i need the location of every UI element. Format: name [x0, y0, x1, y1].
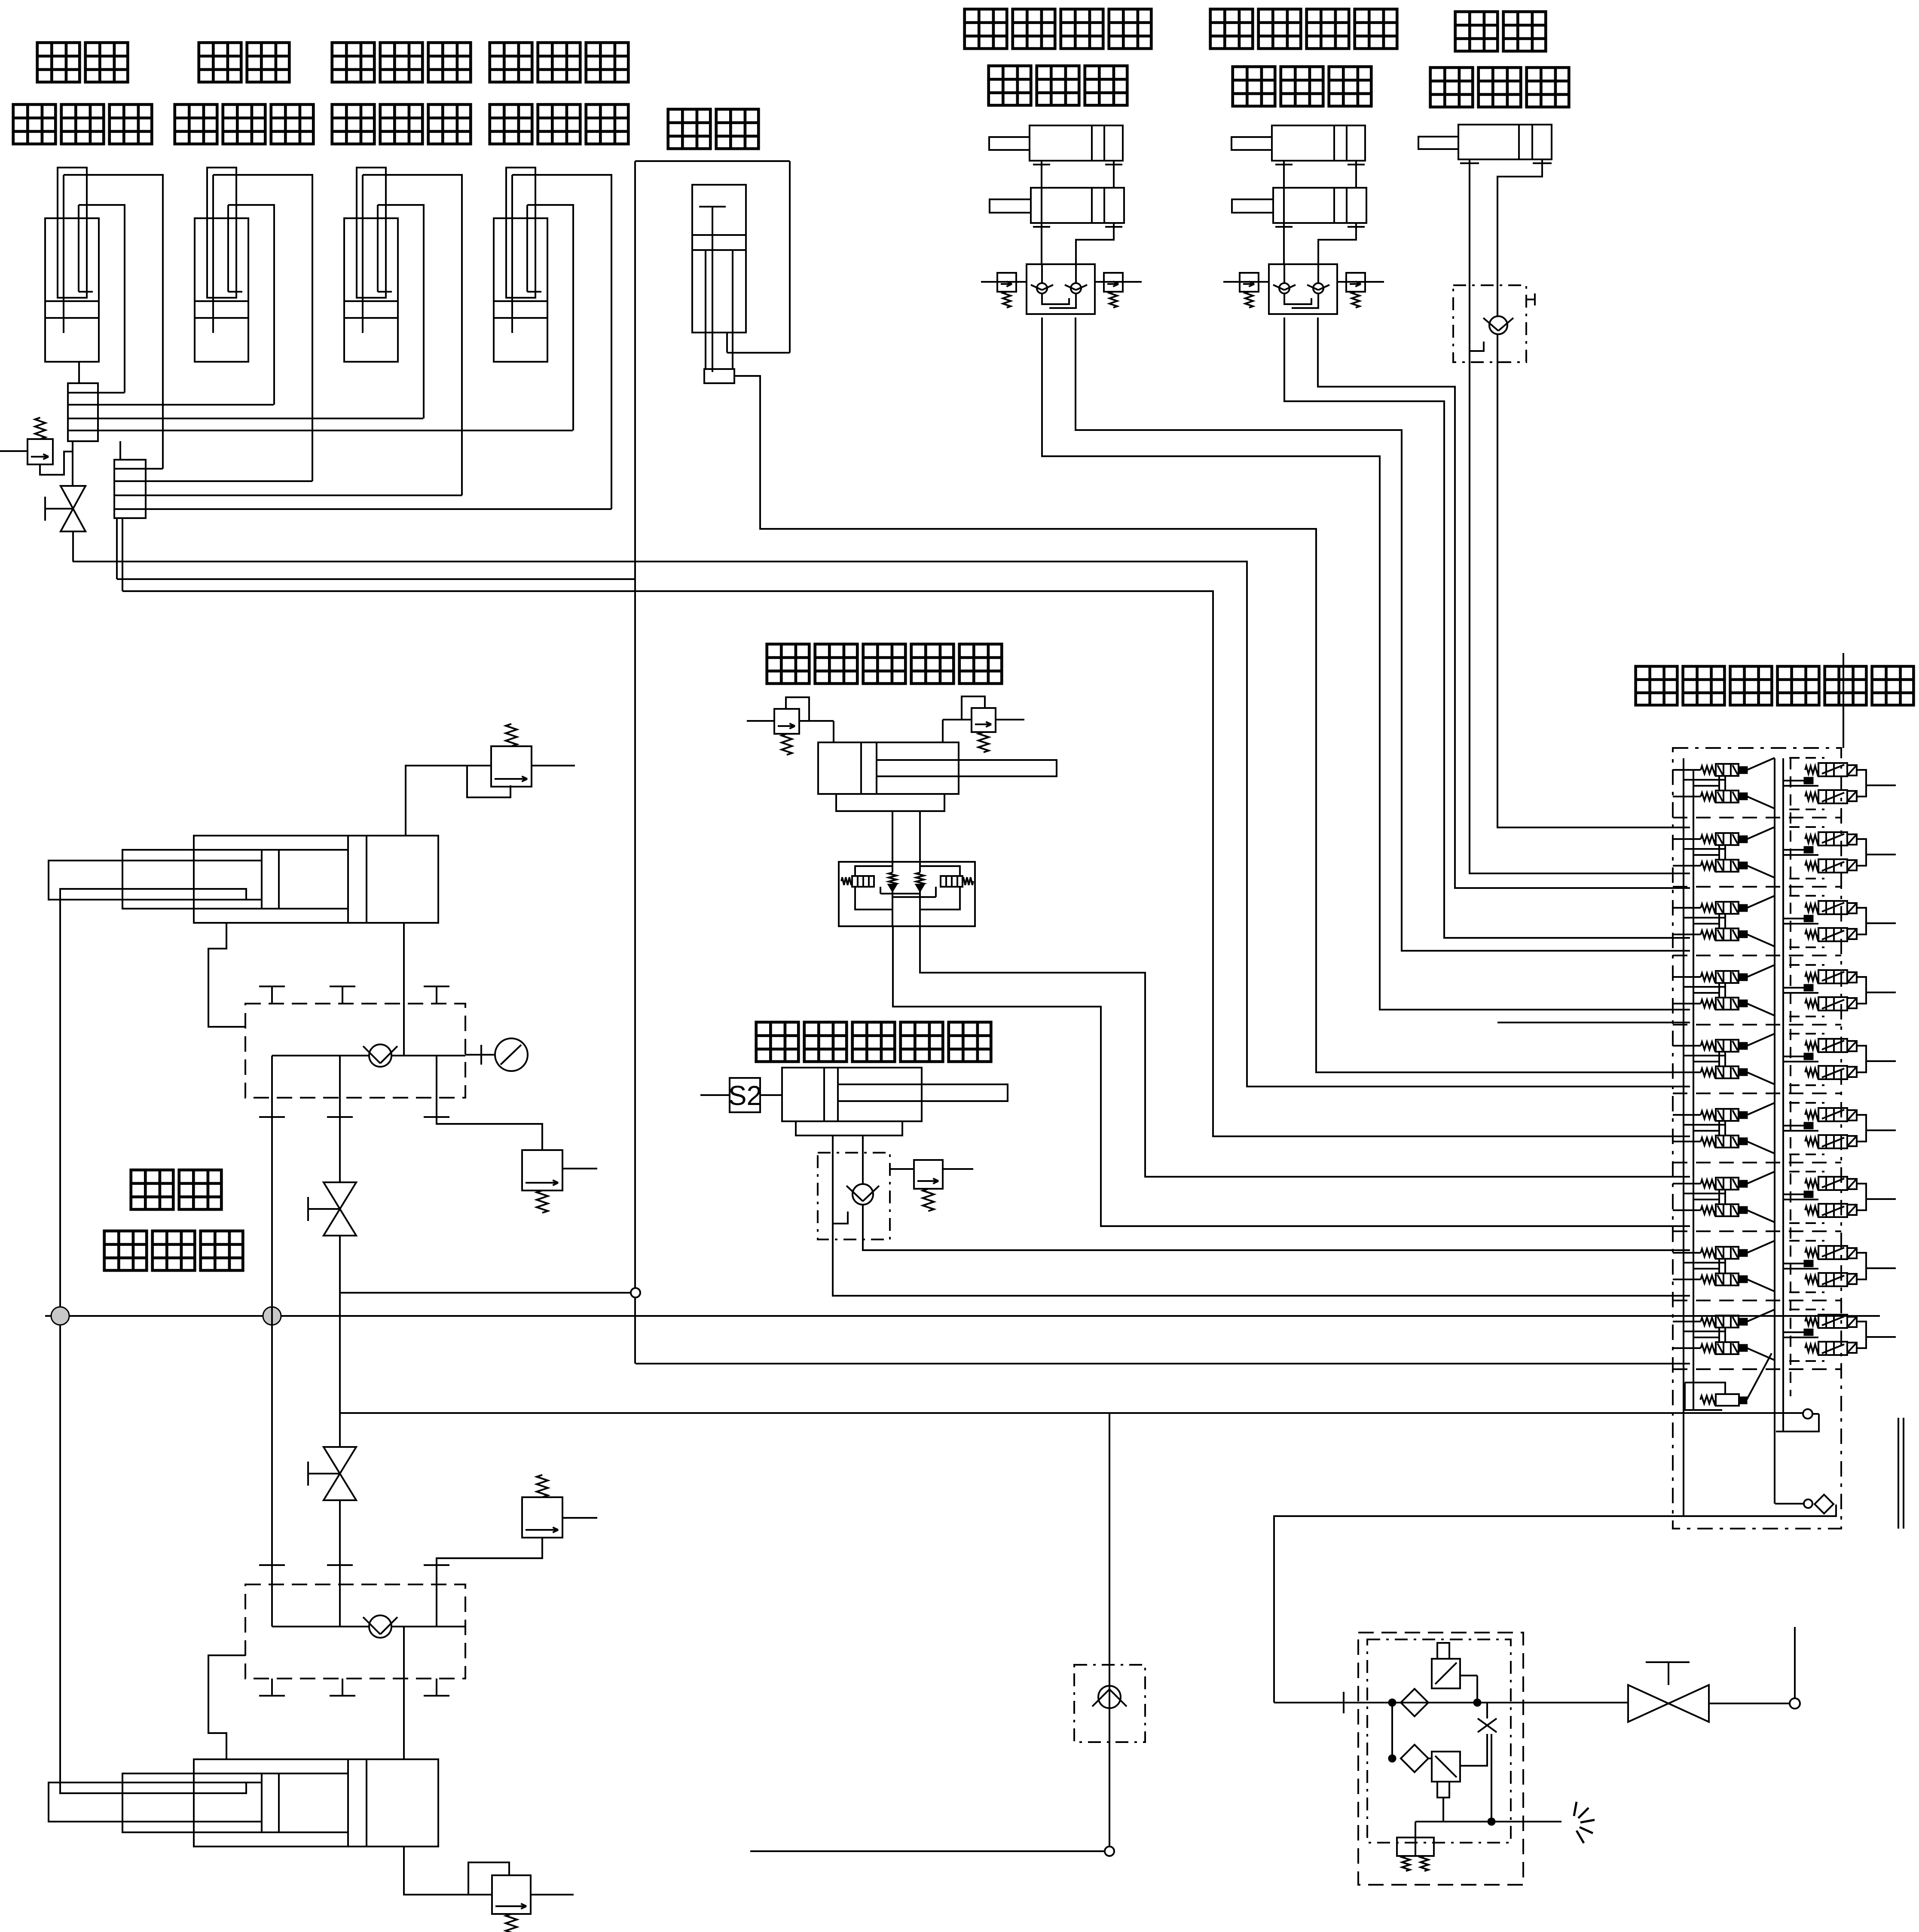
label 平衡千斤顶	[767, 644, 810, 684]
cylinder second-stage guard jack A	[1231, 125, 1365, 168]
wire module 4 diagonals	[1747, 965, 1775, 977]
filter diamond bank	[1815, 1495, 1833, 1514]
cylinder 立柱千斤顶 upper	[49, 836, 438, 923]
cylinder side-guard 4	[494, 168, 547, 362]
wire column relief-u right	[532, 765, 575, 766]
wire module 9 center	[1783, 1331, 1804, 1333]
relief valve column upper	[491, 724, 532, 787]
wire valve1 ports	[1428, 1702, 1432, 1703]
wire module 3 center	[1783, 918, 1804, 919]
pilot check valve first-stage guard jack 2	[1065, 283, 1087, 293]
wire second-stage guard jack left ports	[1283, 168, 1285, 264]
pump unit outer dash box	[1358, 1633, 1523, 1885]
wire loop inner cylinder 4	[527, 205, 573, 430]
wire manifold B row4	[146, 508, 611, 510]
wire first-stage guard jack relief-l stub	[981, 281, 1027, 283]
wire relief pair feed	[1415, 1822, 1416, 1837]
wire balance relief-l	[747, 720, 774, 722]
spring balance block right	[963, 877, 973, 885]
solenoid tab module 5 lower	[1847, 1067, 1857, 1077]
label 顶梁 2	[199, 43, 241, 82]
main valve module 1 right pair	[1805, 763, 1847, 803]
dashed right box module 7	[1789, 1171, 1824, 1172]
shut-off valve column lower	[308, 1447, 356, 1500]
label 顶梁 1	[37, 43, 80, 82]
wire balance block out right	[920, 925, 1690, 1177]
wire module 2 links	[1683, 848, 1725, 850]
wire module 5 bracket	[1857, 1046, 1866, 1072]
wire manifold A row4	[98, 430, 573, 431]
node outlet circle	[1790, 1698, 1800, 1709]
check valve column upper	[363, 1044, 397, 1067]
wire module 2 center	[1783, 849, 1804, 851]
wire module 6 links	[1683, 1124, 1725, 1126]
wire module 3 bracket	[1857, 908, 1866, 934]
valve bank bus 2	[1693, 769, 1694, 1410]
wire upper return	[1274, 1505, 1836, 1703]
node filter junction 2	[1389, 1755, 1396, 1762]
valve block column lower	[245, 1584, 465, 1679]
wire column upper to block right	[403, 923, 405, 1004]
check valve column lower	[363, 1615, 397, 1638]
wire manifold A row3	[98, 418, 423, 419]
solenoid tab module 3 upper	[1847, 903, 1857, 913]
pilot valve module 9 left pair	[1701, 1315, 1747, 1354]
wire first-stage guard jack block internals	[1041, 264, 1043, 283]
wire second-stage guard jack right ports	[1355, 168, 1357, 188]
valve bank bus 1	[1683, 758, 1684, 1516]
solenoid tab module 2 lower	[1847, 860, 1857, 870]
solenoid tab module 4 lower	[1847, 998, 1857, 1008]
main valve module 6 right pair	[1805, 1108, 1847, 1148]
relief valve second-stage guard jack left	[1240, 273, 1259, 308]
svg-text:S2: S2	[728, 1080, 762, 1111]
wire valve2 tab down	[1442, 1798, 1444, 1822]
cylinder 推移千斤顶	[782, 1068, 1008, 1121]
separator module 1	[1673, 817, 1841, 818]
cylinder 底调 (base adjust)	[1418, 125, 1552, 164]
wire S2 stub	[700, 1094, 730, 1096]
valve bank boundary	[1673, 748, 1841, 1529]
pilot valve module 5 left pair	[1701, 1040, 1747, 1078]
separator module 9	[1673, 1368, 1841, 1370]
pilot valve module 1 left pair	[1701, 764, 1747, 803]
cylinder side-guard 1	[45, 168, 99, 362]
unloader valve 2	[1432, 1752, 1460, 1798]
wire first-stage guard jack right ports	[1113, 168, 1115, 188]
solenoid indicator module 1	[1804, 778, 1813, 784]
wire module 8 links	[1683, 1262, 1725, 1264]
node small junction	[631, 1288, 640, 1297]
wire module 8 stubs	[1673, 1252, 1701, 1254]
wire column block internals upper	[272, 1055, 369, 1056]
label 侧护板 3	[332, 104, 375, 144]
wire main suction line	[1274, 1702, 1628, 1703]
solenoid tab module 9 lower	[1847, 1343, 1857, 1353]
solenoid tab module 7 lower	[1847, 1205, 1857, 1215]
wire bank port link	[1812, 1413, 1819, 1415]
pump unit inner box	[1367, 1639, 1511, 1843]
pressure gauge	[495, 1038, 528, 1071]
label 一级护帮	[965, 9, 1007, 49]
check cone balance 1	[889, 873, 896, 885]
wire column relief-low staple	[468, 1862, 509, 1895]
label 千斤顶 3	[1430, 67, 1473, 107]
node valve1 out	[1474, 1699, 1481, 1706]
wire first-stage guard jack relief-r stub	[1095, 281, 1142, 283]
wire module 2 diagonals	[1747, 827, 1775, 839]
pilot valve module 2 left pair	[1701, 833, 1747, 872]
wire module 3 diagonals	[1747, 896, 1775, 908]
label 掩护梁 4	[490, 43, 532, 82]
wire single pilot diagonal	[1747, 1353, 1772, 1400]
wire module 9 links	[1683, 1331, 1725, 1332]
valve block first-stage guard jack	[1027, 264, 1095, 314]
node filter junction 1	[1389, 1699, 1396, 1706]
wire column upper to block left	[208, 923, 245, 1027]
wire gauge stub	[465, 1054, 495, 1056]
dashed right box module 4	[1789, 964, 1824, 966]
wire relief left stub	[0, 450, 28, 452]
label 侧护板 1	[13, 104, 56, 144]
wire module 2 output	[1866, 854, 1896, 855]
label 千斤顶 2	[1233, 67, 1275, 106]
separator module 5	[1673, 1093, 1841, 1094]
hydraulic lock 底调	[1453, 285, 1526, 362]
cylinder 立柱千斤顶 lower	[49, 1759, 438, 1847]
relief valve first-stage guard jack right	[1104, 273, 1123, 308]
pilot check valve second-stage guard jack 1	[1273, 283, 1296, 293]
sensor box S2	[728, 1078, 762, 1112]
label 千斤顶 4	[104, 1231, 147, 1270]
wire column relief-low	[404, 1847, 492, 1895]
separator module 3	[1673, 955, 1841, 956]
wire bank second port	[1775, 1503, 1804, 1505]
solenoid tab module 2 upper	[1847, 834, 1857, 845]
valve block balance (bi-lock)	[839, 862, 975, 926]
solenoid tab module 4 upper	[1847, 972, 1857, 983]
pilot valve module 8 left pair	[1701, 1247, 1747, 1285]
cylinder 平衡千斤顶	[818, 742, 1057, 794]
wire manifold A row2	[98, 404, 274, 406]
wire main pressure bus	[45, 1315, 1880, 1317]
wire second-stage block out right	[1318, 317, 1690, 888]
wire line tick	[1343, 1692, 1345, 1713]
main valve module 4 right pair	[1805, 970, 1847, 1010]
wire balance to block	[892, 811, 893, 873]
valve block push (dash)	[818, 1153, 890, 1239]
valve bank bus 4	[1782, 758, 1784, 1431]
wire balance block internals	[855, 866, 892, 876]
wire link 3009	[340, 1292, 636, 1294]
wire balance relief-l top	[786, 697, 809, 721]
filter diamond 1	[1401, 1689, 1428, 1716]
main valve module 8 right pair	[1805, 1246, 1847, 1286]
wire balance bracket	[836, 794, 944, 811]
wire module 6 output	[1866, 1129, 1896, 1131]
valve bank bus 3	[1774, 758, 1775, 1504]
wire module 7 diagonals	[1747, 1172, 1775, 1184]
wire module 9 stubs	[1673, 1321, 1701, 1322]
wire 抬底 left down	[634, 161, 636, 1364]
wire shutoff column upper	[339, 1117, 341, 1182]
wire module 8 diagonals	[1747, 1241, 1775, 1253]
separator module 7	[1673, 1230, 1841, 1232]
cylinder side-guard 2	[195, 168, 248, 362]
relief valve balance left	[774, 709, 799, 755]
wire column block internals lower	[272, 1626, 369, 1627]
wire relief branch	[40, 452, 73, 475]
wire bus C	[122, 591, 1690, 1136]
dashed right box module 3	[1789, 895, 1824, 897]
solenoid indicator module 3	[1804, 916, 1813, 922]
wire gate out	[1709, 1703, 1790, 1704]
wire module 9 diagonals	[1747, 1309, 1775, 1322]
wire module 4 stubs	[1673, 976, 1701, 978]
throttle X	[1478, 1718, 1497, 1732]
filter diamond 2	[1401, 1745, 1428, 1772]
main valve module 9 right pair	[1805, 1315, 1847, 1355]
label 千斤顶 1	[989, 66, 1031, 105]
solenoid tab module 8 lower	[1847, 1274, 1857, 1284]
wire module 4 bracket	[1857, 977, 1866, 1004]
wire manifold A bottom port	[72, 441, 73, 486]
wire throttle up	[1486, 1703, 1488, 1718]
solenoid tab module 1 upper	[1847, 765, 1857, 775]
check valve push	[846, 1184, 879, 1205]
wire module 6 stubs	[1673, 1114, 1701, 1116]
wire push relief stub	[890, 1168, 914, 1170]
label 侧护板 2	[175, 104, 217, 144]
solenoid indicator module 7	[1804, 1191, 1813, 1197]
solenoid tab module 3 lower	[1847, 929, 1857, 939]
wire filter2 to valve2	[1428, 1758, 1432, 1759]
check valve 底调	[1483, 316, 1513, 334]
wire column lower right port	[403, 1679, 405, 1759]
wire loop outer cylinder 4	[512, 175, 611, 509]
pilot valve module 3 left pair	[1701, 902, 1747, 940]
wire module 5 output	[1866, 1060, 1896, 1062]
pilot check valve second-stage guard jack 2	[1307, 283, 1329, 293]
dashed right box module 8	[1789, 1240, 1824, 1242]
solenoid indicator module 2	[1804, 847, 1813, 853]
pilot valve module 4 left pair	[1701, 971, 1747, 1010]
wire column rod left vertical	[59, 894, 61, 1787]
wire module 3 stubs	[1673, 907, 1701, 909]
wire module 2 bracket	[1857, 839, 1866, 866]
wire loop outer cylinder 1	[64, 175, 163, 469]
wire 3289 to bank	[340, 1412, 1803, 1414]
relief valve second-stage guard jack right	[1346, 273, 1365, 308]
wire module 1 stubs	[1673, 769, 1701, 771]
wire module 4 links	[1683, 986, 1725, 988]
valve block column upper	[245, 1004, 465, 1098]
wire column relief-u staple	[467, 766, 510, 797]
check valve mid (dashed box)	[1074, 1665, 1145, 1742]
wire module 7 bracket	[1857, 1184, 1866, 1210]
node return junction	[1105, 1847, 1114, 1856]
cylinder second-stage guard jack B	[1232, 188, 1366, 230]
solenoid indicator module 6	[1804, 1123, 1813, 1129]
label 二级护帮	[1210, 9, 1253, 49]
wire module 8 bracket	[1857, 1253, 1866, 1279]
main valve module 5 right pair	[1805, 1039, 1847, 1079]
solenoid indicator module 9	[1804, 1329, 1813, 1335]
main valve module 2 right pair	[1805, 832, 1847, 873]
wire push line left to bank	[833, 1239, 1690, 1296]
relief valve column lower	[492, 1875, 531, 1932]
wire first-stage block out right	[1076, 317, 1690, 951]
wire column upper top port	[406, 766, 491, 836]
wire first-stage block out left	[1042, 317, 1690, 1010]
wire module 8 center	[1783, 1263, 1804, 1264]
wire column stack vertical	[271, 1117, 273, 1586]
wire lock internal	[1470, 342, 1484, 351]
wire push bracket	[796, 1121, 902, 1135]
wire balance block out left	[893, 925, 1690, 1226]
valve block second-stage guard jack	[1269, 264, 1337, 314]
wire 3174 link	[636, 1363, 1690, 1364]
dashed right box module 6	[1789, 1102, 1824, 1104]
wire module 9 bracket	[1857, 1322, 1866, 1348]
valve bank top stub	[1843, 653, 1844, 748]
wire loop outer cylinder 2	[213, 175, 312, 481]
main valve module 7 right pair	[1805, 1177, 1847, 1217]
dashed right box module 1	[1789, 757, 1824, 759]
manifold block A	[68, 383, 98, 441]
relief valve column mid-upper	[522, 1150, 562, 1213]
wire module 8 output	[1866, 1267, 1896, 1269]
pilot valve module 6 left pair	[1701, 1109, 1747, 1148]
solenoid indicator module 5	[1804, 1053, 1813, 1059]
spring balance block left	[841, 877, 852, 885]
relief valve column mid-lower	[522, 1475, 562, 1538]
wire module 6 center	[1783, 1125, 1804, 1126]
wire second-stage guard jack relief-l stub	[1223, 281, 1269, 283]
valve bank inner dashed vertical	[1790, 758, 1791, 1396]
wire module 7 output	[1866, 1198, 1896, 1200]
wire relief mid-lower	[437, 1538, 542, 1565]
wire manifold A row1	[98, 392, 125, 394]
wire outlet up	[1794, 1627, 1796, 1698]
wire module 1 bracket	[1857, 770, 1866, 797]
wire bank bottom link	[1776, 1414, 1819, 1431]
dashed right box module 9	[1789, 1309, 1824, 1310]
manifold block B	[114, 460, 146, 518]
gate valve main	[1628, 1662, 1709, 1722]
wire manifold B bottom ports	[116, 518, 118, 579]
wire filters link	[1391, 1703, 1393, 1758]
cylinder side-guard 3	[344, 168, 398, 362]
wire second-stage guard jack block internals	[1283, 264, 1285, 283]
solenoid indicator module 4	[1804, 985, 1813, 991]
wire balance relief-r	[996, 719, 1024, 720]
wire manifold B row2	[146, 480, 312, 482]
wire module 1 center	[1783, 780, 1804, 781]
separator module 2	[1673, 886, 1841, 888]
separator module 4	[1673, 1024, 1841, 1026]
wire column lower left port	[208, 1655, 245, 1759]
wire module 7 stubs	[1673, 1183, 1701, 1184]
pipe box 抬底	[635, 160, 790, 162]
node bank bottom circle	[1804, 1499, 1812, 1508]
relief valve first-stage guard jack left	[997, 273, 1016, 308]
solenoid tab module 5 upper	[1847, 1041, 1857, 1051]
wire module 5 stubs	[1673, 1045, 1701, 1047]
wire vert to check	[1109, 1413, 1110, 1847]
wire relief mid-upper	[437, 1117, 542, 1150]
wire module 7 links	[1683, 1193, 1725, 1194]
wire loop inner cylinder 1	[79, 205, 125, 393]
node bank port circle	[1803, 1409, 1812, 1419]
wire second-stage guard jack relief-r stub	[1337, 281, 1384, 283]
wire module 1 diagonals	[1747, 758, 1775, 770]
wire module 3 links	[1683, 917, 1725, 919]
label 电液控换向阀	[1636, 666, 1678, 705]
wire first-stage guard jack left ports	[1041, 168, 1042, 264]
spray symbol	[1574, 1802, 1595, 1843]
solenoid tab module 9 upper	[1847, 1317, 1857, 1327]
wire module 9 output	[1866, 1336, 1896, 1338]
wire module 5 center	[1783, 1056, 1804, 1057]
wire 底调 left port	[1469, 164, 1470, 285]
wire module 6 diagonals	[1747, 1103, 1775, 1115]
wire extra port	[1497, 1022, 1690, 1023]
solenoid tab module 1 lower	[1847, 791, 1857, 801]
label 立柱	[131, 1170, 174, 1209]
dashed right box module 5	[1789, 1033, 1824, 1035]
node drain junction	[1488, 1818, 1495, 1825]
wire push line right to bank	[863, 1239, 1690, 1250]
wire 底调 right port	[1497, 164, 1542, 285]
relief valve push	[914, 1160, 943, 1211]
solenoid indicator module 8	[1804, 1261, 1813, 1267]
wire manifold B row1	[146, 468, 163, 470]
wire push to block	[832, 1135, 834, 1153]
label 掩护梁 3	[332, 43, 375, 82]
unloader valve 1	[1432, 1643, 1460, 1688]
wire bus A	[73, 562, 1690, 1087]
relief valve balance right	[972, 708, 996, 752]
wire lock tab	[1526, 299, 1535, 300]
wire shutoff down	[72, 531, 74, 562]
shut-off valve column upper	[308, 1182, 356, 1236]
pilot check valve first-stage guard jack 1	[1031, 283, 1053, 293]
wire second-stage block out left	[1284, 317, 1690, 938]
cylinder first-stage guard jack A	[989, 125, 1123, 168]
separator module 6	[1673, 1162, 1841, 1163]
wire module 2 stubs	[1673, 838, 1701, 840]
wire module 3 output	[1866, 922, 1896, 924]
pilot valve module 7 left pair	[1701, 1178, 1747, 1216]
check valve return	[1092, 1686, 1127, 1708]
wire single pilot loop	[1685, 1383, 1725, 1394]
main valve module 3 right pair	[1805, 901, 1847, 941]
label 推移千斤顶	[756, 1022, 799, 1062]
wire bus B	[117, 578, 635, 580]
wire loop outer cylinder 3	[363, 175, 462, 495]
wire loop inner cylinder 3	[378, 205, 424, 418]
dual relief pair	[1397, 1837, 1434, 1856]
wire throttle down	[1491, 1734, 1492, 1822]
wire module 4 output	[1866, 992, 1896, 993]
wire module 6 bracket	[1857, 1115, 1866, 1141]
cylinder first-stage guard jack B	[990, 188, 1124, 230]
node junction mid	[263, 1307, 281, 1325]
cylinder 抬底 (lift bottom)	[692, 185, 746, 383]
wire loop inner cylinder 2	[228, 205, 274, 405]
shut-off valve top-left	[45, 486, 86, 531]
